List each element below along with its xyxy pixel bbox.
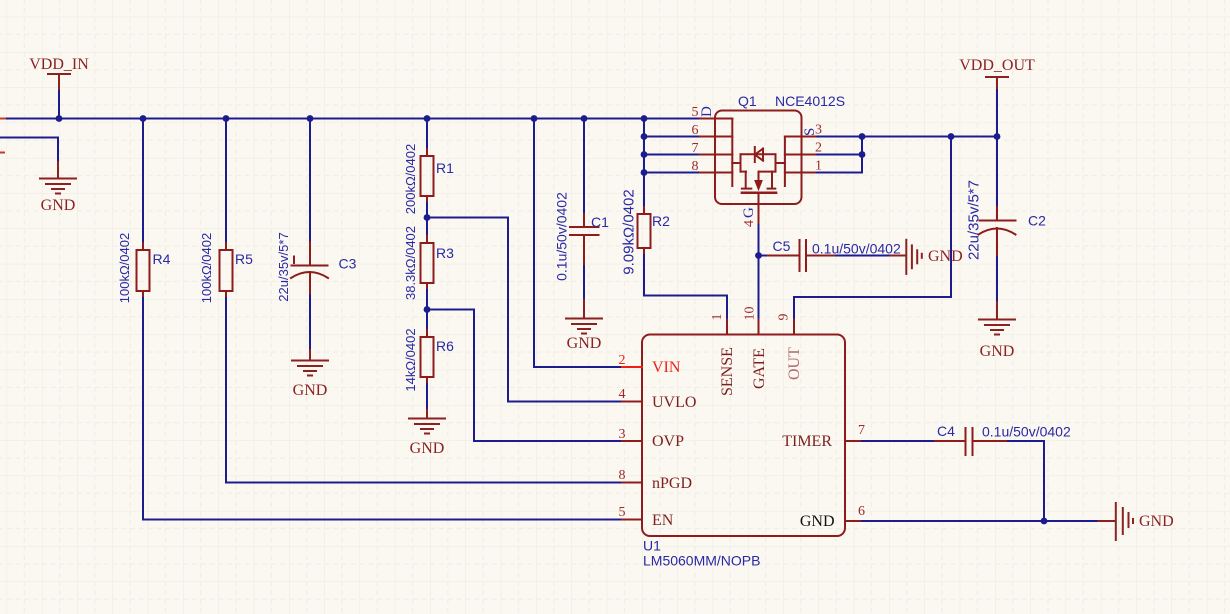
svg-text:38.3kΩ/0402: 38.3kΩ/0402 xyxy=(403,226,418,300)
wire: red stub at left edge lower xyxy=(0,152,4,154)
svg-text:4: 4 xyxy=(619,387,626,402)
op-amp U1 LM5060MM/NOPB body xyxy=(642,335,845,537)
wire: Q1 pin7 row xyxy=(644,154,700,156)
svg-text:G: G xyxy=(741,207,757,218)
resistor R3 38.3k xyxy=(421,236,434,290)
capacitor C3 22u polarized xyxy=(291,242,328,295)
node: junction gate/C5 xyxy=(755,252,762,259)
svg-text:S: S xyxy=(802,128,818,136)
node: junction R2/bus row5 xyxy=(641,115,648,122)
wire: bus to VIN xyxy=(534,119,622,368)
svg-text:UVLO: UVLO xyxy=(652,394,696,411)
node: junction row8 xyxy=(641,169,648,176)
svg-text:22u/35v/5*7: 22u/35v/5*7 xyxy=(276,232,291,301)
svg-text:SENSE: SENSE xyxy=(719,347,736,396)
pin 1 SENSE stub xyxy=(726,320,728,335)
svg-text:NCE4012S: NCE4012S xyxy=(775,93,845,109)
node: junction R1/bus xyxy=(424,115,431,122)
svg-text:100kΩ/0402: 100kΩ/0402 xyxy=(199,233,214,303)
svg-text:VDD_OUT: VDD_OUT xyxy=(959,57,1035,74)
wire: U1 GND to ground xyxy=(862,520,1099,522)
wire: node B to R6 xyxy=(426,310,428,331)
node: junction source row2 xyxy=(859,151,866,158)
wire: Q1 pin8 row xyxy=(644,172,700,174)
wire: gate to GATE pin xyxy=(758,225,760,320)
svg-text:nPGD: nPGD xyxy=(652,475,692,492)
wire: R5 to nPGD xyxy=(226,298,622,483)
resistor R2 9.09k xyxy=(638,207,651,255)
power flag VDD_OUT xyxy=(959,57,1035,90)
svg-text:R5: R5 xyxy=(235,251,253,267)
svg-text:2: 2 xyxy=(815,141,822,156)
svg-text:GND: GND xyxy=(567,335,602,352)
node: junction VDD_IN/bus xyxy=(56,115,63,122)
wire: bus to R5 xyxy=(225,119,227,244)
pin 10 GATE stub xyxy=(758,320,760,335)
svg-text:0.1u/50v/0402: 0.1u/50v/0402 xyxy=(554,192,570,281)
wire: bus to R1 xyxy=(426,119,428,150)
wire: Q1 source row2 xyxy=(817,154,862,156)
wire: R4 to EN xyxy=(143,298,622,520)
svg-text:OUT: OUT xyxy=(786,347,803,380)
svg-text:EN: EN xyxy=(652,512,674,529)
pin 8 nPGD stub xyxy=(622,482,642,484)
wire: VDD_IN to bus xyxy=(58,91,60,119)
wire: left GND branch from edge xyxy=(0,138,58,163)
svg-text:8: 8 xyxy=(692,159,699,174)
wire: R1 to node A xyxy=(426,203,428,218)
svg-text:6: 6 xyxy=(692,123,699,138)
svg-text:GATE: GATE xyxy=(751,348,768,389)
wire: bus down to R2 xyxy=(643,119,645,208)
wire: TIMER to C4 xyxy=(862,440,935,442)
wire: node A to R3 xyxy=(426,218,428,237)
svg-text:R3: R3 xyxy=(436,245,454,261)
svg-text:GND: GND xyxy=(41,197,76,214)
svg-text:R4: R4 xyxy=(153,251,171,267)
svg-text:C1: C1 xyxy=(591,214,609,230)
svg-text:R2: R2 xyxy=(652,213,670,229)
pin 9 OUT stub xyxy=(793,320,795,335)
ground GND (C1) xyxy=(566,300,602,334)
wire: R6 to ground xyxy=(426,384,428,410)
svg-text:U1: U1 xyxy=(643,538,661,554)
svg-text:7: 7 xyxy=(858,423,865,438)
svg-text:C2: C2 xyxy=(1028,213,1046,229)
svg-text:C5: C5 xyxy=(773,238,791,254)
wire: node A to UVLO xyxy=(427,218,622,402)
svg-text:2: 2 xyxy=(619,353,626,368)
capacitor C4 0.1u xyxy=(935,428,1008,455)
node: junction row7 xyxy=(641,151,648,158)
svg-text:VDD_IN: VDD_IN xyxy=(29,56,89,73)
node: junction row6 xyxy=(641,133,648,140)
svg-text:GND: GND xyxy=(928,248,963,265)
svg-text:D: D xyxy=(699,106,715,117)
resistor R6 14k xyxy=(421,330,434,384)
svg-text:9.09kΩ/0402: 9.09kΩ/0402 xyxy=(621,189,638,274)
wire: C5 to ground xyxy=(836,255,891,257)
wire: bus to R4 xyxy=(142,119,144,244)
ground GND (input) xyxy=(40,162,76,194)
power flag VDD_IN xyxy=(29,56,89,91)
node: junction OUT/output xyxy=(948,133,955,140)
svg-text:200kΩ/0402: 200kΩ/0402 xyxy=(403,144,418,214)
node: junction R1/R3/UVLO xyxy=(424,214,431,221)
node: junction C3/bus xyxy=(307,115,314,122)
svg-text:100kΩ/0402: 100kΩ/0402 xyxy=(117,233,132,303)
svg-text:GND: GND xyxy=(800,513,835,530)
ground GND (U1) sideways xyxy=(1099,503,1134,540)
wire: bus stub at left edge xyxy=(0,118,5,120)
svg-text:Q1: Q1 xyxy=(738,93,757,109)
svg-text:TIMER: TIMER xyxy=(782,433,832,450)
capacitor C5 0.1u xyxy=(768,240,836,271)
wire: Q1 pin5 row xyxy=(644,118,700,120)
node: junction C4/GND wire xyxy=(1041,518,1048,525)
svg-text:C3: C3 xyxy=(339,256,357,272)
svg-text:GND: GND xyxy=(1139,513,1174,530)
node: junction source row3 xyxy=(859,133,866,140)
pin 2 VIN stub xyxy=(622,366,642,368)
wire: Q1 pin6 row xyxy=(644,136,700,138)
wire: bus to C3 xyxy=(309,119,311,243)
svg-text:9: 9 xyxy=(777,314,792,321)
svg-text:8: 8 xyxy=(619,468,626,483)
ground GND (C3) xyxy=(292,350,328,376)
svg-text:GND: GND xyxy=(293,382,328,399)
resistor R1 200k xyxy=(421,149,434,203)
svg-text:LM5060MM/NOPB: LM5060MM/NOPB xyxy=(643,553,760,569)
wire: C2 to ground xyxy=(996,257,998,302)
pin 3 OVP stub xyxy=(622,440,642,442)
wire: node B to OVP xyxy=(427,310,622,442)
wire: C1 to ground xyxy=(583,266,585,300)
wire: OUT pin to output node xyxy=(794,137,951,320)
wire: node to C2 xyxy=(996,137,998,208)
wire: VDD_OUT to node xyxy=(996,90,998,137)
wire: R3 to node B xyxy=(426,290,428,310)
svg-text:1: 1 xyxy=(815,159,822,174)
wire: Q1 source row1 xyxy=(817,137,862,173)
node: junction C1/bus xyxy=(581,115,588,122)
svg-text:1: 1 xyxy=(710,314,725,321)
svg-text:7: 7 xyxy=(692,141,699,156)
svg-text:6: 6 xyxy=(858,504,865,519)
resistor R5 100k xyxy=(220,243,233,298)
svg-text:VIN: VIN xyxy=(652,359,681,376)
svg-text:5: 5 xyxy=(619,505,626,520)
svg-text:GND: GND xyxy=(410,440,445,457)
wire: Q1 source row3 to output xyxy=(817,136,997,138)
pin 6 GND stub xyxy=(845,520,862,522)
capacitor C1 0.1u xyxy=(570,214,599,266)
svg-text:R1: R1 xyxy=(436,160,454,176)
wire: main VDD_IN bus xyxy=(0,118,644,120)
resistor R4 100k xyxy=(137,243,150,298)
pin 7 TIMER stub xyxy=(845,440,862,442)
transistor Q1 NCE4012S xyxy=(700,111,817,225)
capacitor C2 22u polarized xyxy=(979,207,1016,257)
svg-text:OVP: OVP xyxy=(652,433,684,450)
node: junction R3/R6/OVP xyxy=(424,306,431,313)
node: junction R4/bus xyxy=(140,115,147,122)
wire: R2 to SENSE xyxy=(644,255,727,320)
wire: C3 to ground xyxy=(309,295,311,350)
svg-text:14kΩ/0402: 14kΩ/0402 xyxy=(403,328,418,391)
pin 5 EN stub xyxy=(622,519,642,521)
svg-text:0.1u/50v/0402: 0.1u/50v/0402 xyxy=(982,424,1071,440)
ground GND (C5) sideways xyxy=(891,240,922,274)
svg-text:22u/35v/5*7: 22u/35v/5*7 xyxy=(966,180,983,260)
svg-text:3: 3 xyxy=(619,427,626,442)
svg-text:10: 10 xyxy=(743,307,758,321)
wire: C4 to GND net xyxy=(1008,441,1044,521)
svg-text:GND: GND xyxy=(980,343,1015,360)
wire: bus to C1 xyxy=(583,119,585,215)
node: junction R5/bus xyxy=(223,115,230,122)
svg-text:4: 4 xyxy=(742,220,757,227)
pin 4 UVLO stub xyxy=(622,401,642,403)
svg-text:C4: C4 xyxy=(937,423,955,439)
svg-text:R6: R6 xyxy=(436,338,454,354)
node: junction VDD_OUT/C2 xyxy=(994,133,1001,140)
ground GND (C2) xyxy=(979,302,1015,335)
node: junction VIN wire/bus xyxy=(531,115,538,122)
svg-text:0.1u/50v/0402: 0.1u/50v/0402 xyxy=(812,241,901,257)
ground GND (R6) xyxy=(409,410,445,434)
wire: gate node to C5 xyxy=(759,255,768,257)
svg-text:5: 5 xyxy=(692,105,699,120)
